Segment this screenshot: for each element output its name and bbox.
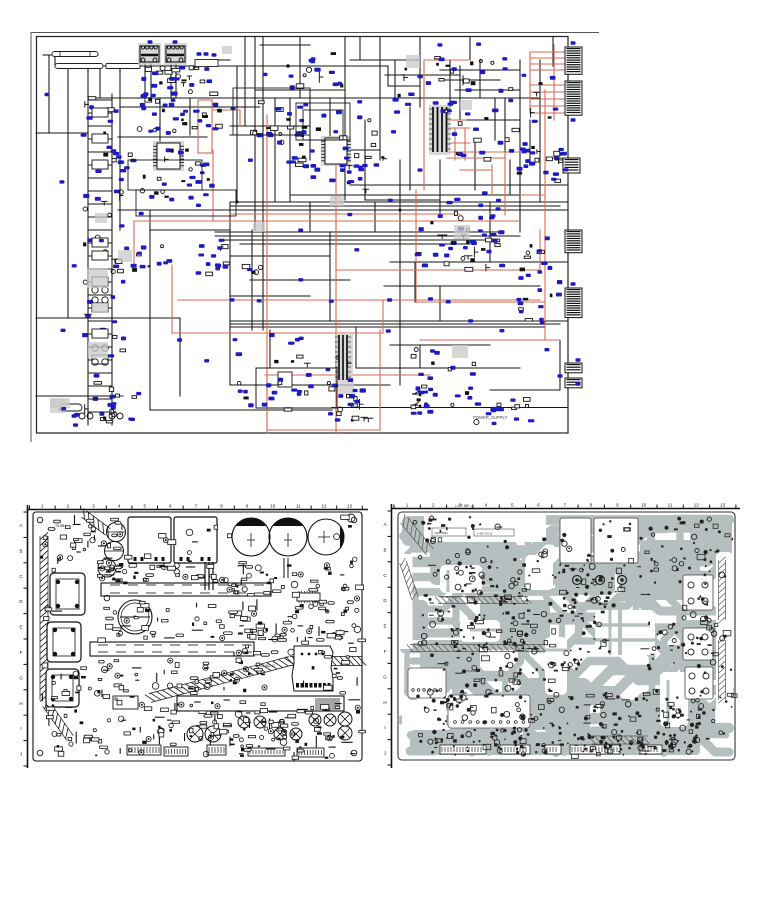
input ladder rails xyxy=(88,100,112,412)
transformer T601 footprint xyxy=(50,573,85,615)
connector CN9106 xyxy=(565,358,582,373)
component field - input filter parts xyxy=(54,515,132,570)
component cluster - relay drive cluster xyxy=(289,52,344,89)
enclosure box - IC1 lower xyxy=(136,190,236,216)
pad field - mid lower pads xyxy=(430,641,555,688)
smoothing capacitor C620 xyxy=(118,600,152,634)
component field - transistor row parts xyxy=(227,557,364,597)
transformer T9001 xyxy=(138,40,161,65)
capacitor footprint white box E xyxy=(685,667,713,699)
bottom connector CN604 xyxy=(207,745,226,755)
transformer footprint white box B xyxy=(594,518,638,563)
connector CN9107 xyxy=(558,374,583,388)
heatsink bar HS3 xyxy=(177,696,344,711)
net label marks xyxy=(45,43,550,416)
hatch region left edge xyxy=(400,558,419,600)
main filter capacitor C603 xyxy=(308,519,344,555)
svg-text:T9.5B4: T9.5B4 xyxy=(55,524,66,528)
choke coil L603 xyxy=(98,559,116,577)
transformer T9002 xyxy=(164,40,187,65)
component field - under cap parts xyxy=(245,628,357,658)
pad field - top right pads xyxy=(599,517,720,568)
pad field - right column pads xyxy=(639,561,718,674)
component cluster - output bottom cluster xyxy=(474,398,535,426)
copper trace field xyxy=(403,518,729,753)
left board outline xyxy=(33,512,362,761)
component field - row under boxes xyxy=(97,560,228,584)
svg-text:B: B xyxy=(383,547,386,552)
svg-text:F: F xyxy=(20,650,23,655)
pad field - center pads xyxy=(499,590,611,671)
component cluster - secondary rectifier cluster xyxy=(448,60,564,162)
enclosure box - IC1 area xyxy=(128,160,202,190)
switch S9002 xyxy=(412,402,428,407)
hatch region right edge upper xyxy=(719,557,726,623)
svg-text:13: 13 xyxy=(720,503,726,508)
svg-text:G: G xyxy=(19,675,23,680)
white relief top strip xyxy=(424,514,546,542)
component field - top mid parts xyxy=(144,525,231,558)
pad field - bottom band pads xyxy=(416,685,706,752)
pad field - upper center pads xyxy=(537,533,594,579)
svg-text:E: E xyxy=(19,625,22,630)
component cluster - primary rectifier cluster xyxy=(137,66,222,135)
op-amp IC9001 xyxy=(153,141,184,171)
transformer T9004 core xyxy=(335,333,353,382)
power connector area xyxy=(292,646,333,691)
component cluster - output filter cluster xyxy=(498,141,569,183)
choke coil L602 xyxy=(105,542,124,561)
enclosure box - nested A xyxy=(296,103,350,140)
component cluster - osc cluster xyxy=(340,143,387,193)
pad field - right edge pads xyxy=(699,518,737,740)
svg-text:H: H xyxy=(19,701,22,706)
right board outline xyxy=(398,512,735,760)
hatch region bottom right xyxy=(588,736,649,744)
component field - rectifier row parts xyxy=(100,563,225,583)
fuse F1 xyxy=(52,52,98,57)
transformer T603 footprint xyxy=(46,669,79,707)
component field - mid right parts xyxy=(265,600,359,642)
IC601 DIP footprint xyxy=(297,591,320,603)
svg-text:12: 12 xyxy=(321,504,327,509)
degauss coil symbols xyxy=(50,399,123,419)
connector CN9105 xyxy=(565,282,582,317)
thin traces over reliefs xyxy=(448,570,668,725)
isolation hatch bottom left xyxy=(43,699,74,741)
copper pour patches xyxy=(402,515,732,754)
winding pads xyxy=(573,576,627,585)
hatch region right edge lower xyxy=(719,637,726,703)
vertical bar group xyxy=(205,558,448,590)
enclosure box - regulator xyxy=(256,368,337,408)
svg-text:F: F xyxy=(384,649,387,654)
component cluster - startup cluster xyxy=(393,57,468,114)
shaded service areas xyxy=(50,46,472,408)
svg-text:11: 11 xyxy=(668,503,673,508)
component field - right edge parts xyxy=(334,515,366,754)
main filter capacitor C601 xyxy=(232,518,270,556)
component cluster - input ladder upper xyxy=(81,97,125,228)
label PF xyxy=(455,504,473,508)
left board ruler top xyxy=(27,504,368,510)
svg-text:J: J xyxy=(20,752,22,757)
wire bundle - schematic nets xyxy=(36,37,568,425)
component field - bottom band parts xyxy=(46,702,344,761)
transformer footprint white box A xyxy=(560,518,591,563)
component cluster - rectifier bottom cluster xyxy=(335,388,374,422)
component field - center column parts xyxy=(229,611,260,681)
component cluster - input ladder lower xyxy=(82,235,126,421)
bottom connector CN606 xyxy=(297,748,324,757)
bridge heatsink box A xyxy=(128,517,171,563)
svg-text:12: 12 xyxy=(694,503,700,508)
component cluster - regulator cluster xyxy=(233,333,358,411)
white relief zones xyxy=(402,552,733,730)
component cluster - snubber cluster xyxy=(251,101,309,137)
transformer T602 footprint xyxy=(47,622,81,662)
svg-text:B: B xyxy=(19,548,22,553)
main filter capacitor C602 xyxy=(269,518,307,556)
bottom connector footprints right board xyxy=(440,745,662,754)
bottom connector CN603 xyxy=(164,747,188,756)
bottom gray band xyxy=(420,735,700,755)
connector CN9104 xyxy=(565,230,582,253)
relay RY9001 xyxy=(195,52,218,66)
photocoupler IC9003 xyxy=(278,372,292,387)
svg-text:POWER_SUPPLY: POWER_SUPPLY xyxy=(473,415,508,420)
component field - bottom mid parts xyxy=(154,700,342,746)
svg-text:▷ PF WF ◁: ▷ PF WF ◁ xyxy=(455,504,473,508)
svg-text:13: 13 xyxy=(347,504,353,509)
svg-text:10: 10 xyxy=(641,503,647,508)
svg-text:J: J xyxy=(384,751,386,756)
enclosure box - top section xyxy=(233,88,310,135)
component field - mid band parts xyxy=(98,595,265,642)
component cluster - standby cluster xyxy=(518,236,563,324)
white relief left strip xyxy=(400,554,413,649)
schematic outer border xyxy=(31,33,599,443)
label POWER_SUPPLY xyxy=(473,407,508,420)
svg-text:A: A xyxy=(19,523,22,528)
transformer T9003 core xyxy=(429,105,451,155)
component cluster - regulator IC cluster xyxy=(116,148,215,201)
switch S9001 xyxy=(412,391,428,397)
hatch region top-left corner xyxy=(401,514,434,555)
connector CN9102 xyxy=(565,81,582,122)
bottom connector CN605 xyxy=(248,748,285,756)
svg-text:G: G xyxy=(383,674,387,679)
left board mounting holes xyxy=(37,514,357,756)
hatch region mid band 2 xyxy=(407,645,545,674)
left board ruler left xyxy=(19,505,27,768)
component cluster - degauss cluster xyxy=(59,394,137,427)
right board ruler left xyxy=(383,504,391,768)
svg-text:1-876-994-12: 1-876-994-12 xyxy=(440,595,458,599)
component cluster - error amp cluster xyxy=(438,214,496,271)
svg-text:E: E xyxy=(383,624,386,629)
enclosure box - nested B xyxy=(303,110,343,140)
white relief box lower-left xyxy=(408,668,446,698)
isolation hatch left edge xyxy=(40,532,48,701)
pad field - top left pads xyxy=(413,516,509,555)
capacitor footprint white box C xyxy=(683,575,713,610)
component cluster - PWM support cluster xyxy=(271,110,378,182)
heatsink bar HS1 xyxy=(101,583,271,596)
connector CN9101 xyxy=(565,41,582,74)
IC602 DIP footprint xyxy=(113,696,138,709)
svg-text:I: I xyxy=(384,725,385,730)
output capacitors group xyxy=(187,712,352,742)
pad field - bottom edge pads xyxy=(428,734,697,759)
right board ruler top xyxy=(391,503,740,509)
isolation hatch top left xyxy=(82,509,111,538)
svg-text:A: A xyxy=(383,522,386,527)
capacitor footprint white box D xyxy=(683,628,713,660)
component cluster - protection cluster xyxy=(411,348,476,415)
component cluster - drive cluster xyxy=(196,239,263,276)
component cluster - sense cluster xyxy=(111,245,172,274)
schematic inner frame xyxy=(37,37,569,434)
component field - hatch row parts xyxy=(103,665,340,692)
text T9.5B4 xyxy=(55,524,66,528)
red wire bundle - primary power nets xyxy=(134,45,565,433)
isolation hatch middle band xyxy=(145,657,366,703)
heatsink bar HS2 xyxy=(90,642,254,656)
component field - lower left parts xyxy=(52,658,227,705)
pad field - transformer pads xyxy=(558,564,625,627)
bridge heatsink box B xyxy=(174,517,217,563)
svg-text:11: 11 xyxy=(296,504,301,509)
hatch region center band xyxy=(435,595,531,604)
pad field - primary side pads xyxy=(418,554,540,650)
connector CN9103 xyxy=(558,152,581,173)
svg-text:I: I xyxy=(20,726,21,731)
line filter bar xyxy=(55,64,140,69)
svg-text:1-468-781-11: 1-468-781-11 xyxy=(477,532,493,536)
bottom connector CN602 xyxy=(127,745,161,755)
svg-text:H: H xyxy=(383,700,386,705)
white relief IC footprint xyxy=(448,695,530,728)
component field - left edge parts xyxy=(40,528,62,701)
choke coil L601 xyxy=(107,523,126,542)
junction node xyxy=(236,64,402,211)
component cluster - feedback cluster xyxy=(415,191,506,271)
svg-text:10: 10 xyxy=(270,504,276,509)
controller IC9002 xyxy=(321,136,351,166)
